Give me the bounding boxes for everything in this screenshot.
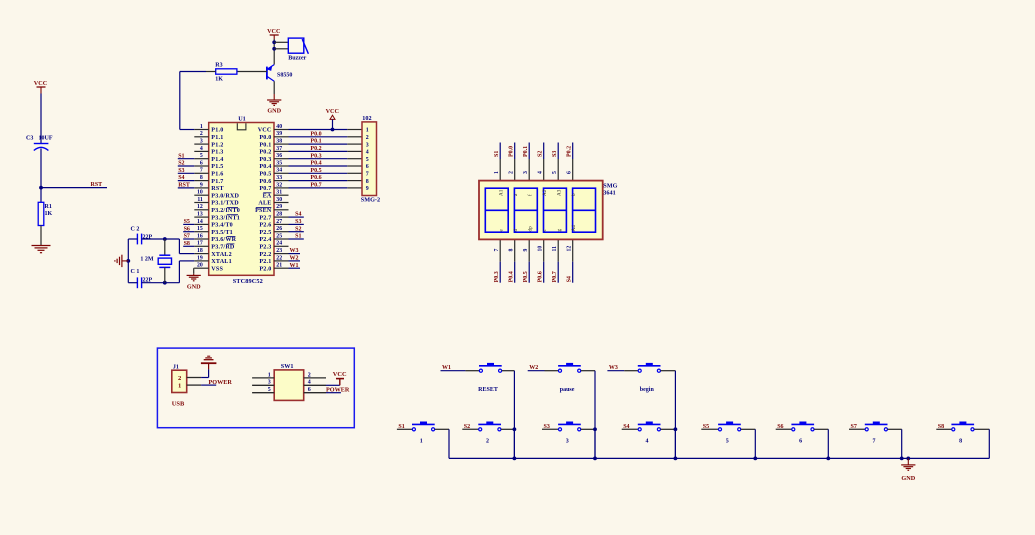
svg-text:2: 2 [200, 131, 203, 137]
pin stub W3 right [661, 370, 676, 372]
svg-text:S4: S4 [295, 212, 301, 218]
svg-text:7: 7 [200, 168, 203, 174]
wire net W1 (right) [289, 267, 301, 269]
wire VCC to buzzer node [273, 39, 275, 65]
pin 27 U1 [259, 219, 288, 229]
svg-text:24: 24 [276, 241, 282, 247]
pin 1 U1 [194, 124, 223, 134]
wire net S1 (left) [178, 158, 195, 160]
svg-text:A1: A1 [498, 189, 504, 196]
wire net P0.1 (display top) [528, 143, 530, 160]
junction W column at key row [674, 427, 678, 431]
svg-text:1: 1 [200, 124, 203, 130]
svg-text:6: 6 [308, 387, 311, 393]
svg-text:1: 1 [268, 372, 271, 378]
svg-text:S2: S2 [295, 226, 301, 232]
wire C2 left [128, 238, 137, 240]
wire net W2 (right) [289, 260, 301, 262]
svg-text:C 1: C 1 [131, 269, 140, 275]
pin stub W1 right [502, 370, 515, 372]
svg-text:P0.0: P0.0 [259, 135, 271, 141]
wire column W1 down [513, 371, 515, 459]
pin 17 U1 [194, 241, 235, 251]
pin 2 display stub [514, 159, 516, 181]
wire S7 to button [849, 428, 865, 430]
ground (key bus) [901, 458, 916, 481]
pin 11 U1 [194, 197, 239, 207]
svg-text:5: 5 [726, 438, 729, 444]
wire net S2 (left) [178, 165, 195, 167]
crystal Y1 12M [140, 239, 171, 283]
switch S1 (key 1) [412, 422, 435, 431]
switch SW1 body [274, 363, 304, 401]
wire C3 to node RST [40, 149, 42, 188]
svg-text:ALE: ALE [258, 201, 271, 207]
svg-text:P0.4: P0.4 [509, 271, 515, 282]
svg-text:22: 22 [276, 255, 282, 261]
svg-text:P0.2: P0.2 [259, 150, 271, 156]
pin stub W1 left [465, 370, 479, 372]
svg-text:U1: U1 [238, 116, 246, 123]
svg-text:18: 18 [197, 248, 203, 254]
svg-text:35: 35 [276, 160, 282, 166]
wire C2 right to crystal node [142, 238, 180, 240]
svg-text:P0.3: P0.3 [310, 153, 321, 159]
junction W column at key row [593, 427, 597, 431]
svg-text:2: 2 [486, 438, 489, 444]
op-amp U1 STC89C52 body [209, 116, 274, 286]
pin 32 U1 [259, 182, 288, 192]
wire VCC to C3 [40, 94, 42, 144]
wire net S7 (left) [183, 238, 194, 240]
svg-text:USB: USB [172, 400, 185, 407]
svg-text:1: 1 [178, 382, 181, 389]
capacitor C3 [26, 136, 53, 151]
svg-text:S1: S1 [295, 234, 301, 240]
svg-text:S2: S2 [178, 161, 184, 167]
box USB power section [157, 348, 354, 428]
pin 19 U1 [194, 255, 232, 265]
pin 11 display stub [557, 239, 559, 261]
pin 35 U1 [259, 160, 288, 170]
svg-text:W2: W2 [290, 256, 299, 262]
svg-text:12: 12 [197, 204, 203, 210]
wire net P0.5 (display bottom) [528, 262, 530, 283]
switch S5 (key 5) [718, 422, 741, 431]
switch W2 (pause) [558, 363, 581, 372]
svg-text:R3: R3 [215, 62, 222, 68]
pin stub S8 right [974, 428, 989, 430]
svg-text:5: 5 [552, 171, 558, 174]
ground (VSS) [187, 274, 202, 291]
svg-text:P2.0: P2.0 [259, 266, 271, 272]
wire S4 to button [622, 428, 638, 430]
svg-text:1K: 1K [45, 211, 53, 217]
svg-text:P2.7: P2.7 [259, 215, 271, 221]
junction W column at key row [513, 427, 517, 431]
wire column W3 down [674, 371, 676, 459]
node RST junction [39, 186, 43, 190]
wire column S2 down [513, 429, 515, 458]
switch S8 (key 8) [951, 422, 974, 431]
wire net S3 (right) [289, 223, 304, 225]
display U2 SMG 3641 body [479, 181, 618, 240]
svg-text:3641: 3641 [603, 190, 615, 197]
svg-text:P3.7/RD: P3.7/RD [211, 245, 235, 251]
svg-text:6: 6 [366, 164, 369, 170]
pin 4 J102 stub [347, 150, 362, 152]
svg-text:39: 39 [276, 131, 282, 137]
svg-text:7: 7 [366, 172, 369, 178]
pin 16 U1 [194, 233, 236, 243]
pin 38 U1 [259, 139, 288, 149]
wire net P0.3 (display bottom) [499, 262, 501, 283]
wire W2 to button [528, 370, 545, 372]
wire junction to R1 [40, 188, 42, 203]
pin 1 display stub [499, 159, 501, 181]
wire R3 to pin stub [206, 71, 216, 73]
svg-text:3: 3 [523, 171, 529, 174]
wire net P0.3 [289, 158, 348, 160]
svg-text:33: 33 [276, 175, 282, 181]
wire net P0.6 (display bottom) [543, 262, 545, 283]
pin stub S7 right [888, 428, 902, 430]
capacitor C2 [131, 227, 153, 245]
svg-text:5: 5 [200, 153, 203, 159]
pin 2 J1 [187, 377, 201, 379]
svg-text:P2.4: P2.4 [259, 237, 271, 243]
pin 8 U1 [194, 175, 223, 185]
svg-text:P0.1: P0.1 [310, 139, 321, 145]
pin 10 display stub [543, 239, 545, 261]
svg-text:VSS: VSS [211, 266, 223, 272]
svg-text:P0.1: P0.1 [523, 146, 529, 157]
wire net P0.4 [289, 165, 348, 167]
pin stub S2 right [501, 428, 514, 430]
svg-text:4: 4 [366, 150, 369, 156]
switch W3 (begin) [638, 363, 661, 372]
overline INT0 [227, 206, 238, 208]
svg-text:P1.1: P1.1 [211, 135, 223, 141]
wire POWER net (J1) [201, 384, 216, 386]
svg-text:4: 4 [200, 146, 203, 152]
svg-text:J1: J1 [173, 364, 179, 370]
display digit 1 [485, 188, 508, 232]
svg-text:1K: 1K [215, 77, 223, 83]
svg-text:S8: S8 [184, 241, 190, 247]
pin stub S6 right [814, 428, 828, 430]
pin 31 U1 [263, 190, 289, 200]
pin 3 display stub [528, 159, 530, 181]
svg-text:27: 27 [276, 219, 282, 225]
pin 5 U1 [194, 153, 223, 163]
wire S3 to button [542, 428, 558, 430]
svg-text:S3: S3 [552, 151, 558, 157]
svg-text:P0.6: P0.6 [310, 175, 321, 181]
svg-text:A4: A4 [571, 225, 577, 232]
switch S6 (key 6) [791, 422, 814, 431]
pin 34 U1 [259, 168, 288, 178]
pin 7 display stub [499, 239, 501, 261]
svg-text:P3.5/T1: P3.5/T1 [211, 230, 233, 236]
svg-text:7: 7 [873, 438, 876, 444]
pin 24 U1 [259, 241, 288, 251]
pin 29 U1 [255, 204, 288, 214]
svg-text:9: 9 [200, 182, 203, 188]
wire net S1 (right) [289, 238, 304, 240]
svg-text:23: 23 [276, 248, 282, 254]
svg-text:11: 11 [552, 246, 558, 252]
pin 10 U1 [194, 190, 239, 200]
svg-text:P0.2: P0.2 [567, 146, 573, 157]
svg-text:P0.7: P0.7 [259, 186, 271, 192]
svg-text:RST: RST [178, 183, 190, 189]
wire XTAL1 link [179, 261, 194, 283]
pin 39 U1 [259, 131, 288, 141]
svg-text:3: 3 [366, 142, 369, 148]
pin 2 SW1 [304, 372, 326, 378]
wire column S8 down [988, 429, 990, 458]
svg-text:P3.2/INT0: P3.2/INT0 [211, 208, 240, 214]
svg-text:pause: pause [560, 387, 575, 393]
pin 28 U1 [259, 212, 288, 222]
wire net S8 (left) [183, 245, 194, 247]
pin 6 J102 stub [347, 165, 362, 167]
overline WR [227, 236, 236, 238]
svg-text:GND: GND [187, 284, 201, 291]
svg-text:S7: S7 [184, 234, 190, 240]
svg-text:A2: A2 [542, 189, 548, 196]
junction S column at bus [753, 457, 757, 461]
svg-text:P0.0: P0.0 [509, 146, 515, 157]
wire VCC pin 40 [289, 129, 348, 131]
wire W1 to button [441, 370, 466, 372]
wire net S6 (left) [183, 231, 194, 233]
svg-text:VCC: VCC [333, 371, 347, 378]
svg-text:2: 2 [308, 372, 311, 378]
pin 5 display stub [557, 159, 559, 181]
wire VSS to ground [193, 268, 196, 274]
connector J102 body [361, 115, 380, 204]
svg-text:EA: EA [263, 193, 272, 199]
svg-text:9: 9 [366, 186, 369, 192]
svg-text:P2.3: P2.3 [259, 245, 271, 251]
ground (crystal, sideways) [115, 255, 128, 267]
wire to buzzer pin 2 [274, 48, 288, 50]
wire net S4 (left) [178, 180, 195, 182]
wire S6 to button [776, 428, 792, 430]
junction W column at bus [593, 457, 597, 461]
pin 4 display stub [543, 159, 545, 181]
svg-text:20: 20 [197, 263, 203, 269]
svg-text:38: 38 [276, 139, 282, 145]
junction ground tap [906, 457, 910, 461]
capacitor C1 [131, 269, 153, 288]
wire SW1 pin4 to VCC [326, 384, 340, 386]
pin stub S4 right [661, 428, 676, 430]
pin 12 display stub [572, 239, 574, 261]
junction W column at bus [674, 457, 678, 461]
svg-text:P1.3: P1.3 [211, 150, 223, 156]
switch S4 (key 4) [638, 422, 661, 431]
wire column S4 down [674, 429, 676, 458]
wire J1 pin2 to ground [201, 369, 209, 377]
pin 20 U1 [194, 263, 223, 273]
svg-text:P0.7: P0.7 [310, 183, 321, 189]
svg-text:P2.1: P2.1 [259, 259, 271, 265]
svg-text:P1.7: P1.7 [211, 179, 223, 185]
svg-text:13: 13 [197, 212, 203, 218]
display digit 3 [544, 188, 567, 232]
svg-text:POWER: POWER [326, 386, 350, 393]
pin 40 U1 [258, 124, 289, 134]
wire net S2 (right) [289, 231, 304, 233]
svg-text:P0.7: P0.7 [552, 271, 558, 282]
svg-text:S3: S3 [178, 168, 184, 174]
pin 13 U1 [194, 212, 240, 222]
svg-text:28: 28 [276, 212, 282, 218]
svg-text:VCC: VCC [34, 80, 47, 87]
pin 25 U1 [259, 233, 288, 243]
wire column S3 down [594, 429, 596, 458]
wire net P0.2 (display top) [572, 143, 574, 160]
svg-text:17: 17 [197, 241, 203, 247]
svg-text:S8550: S8550 [277, 73, 292, 79]
junction S column at bus [900, 457, 904, 461]
svg-text:P2.2: P2.2 [259, 252, 271, 258]
wire net P0.0 (display top) [514, 143, 516, 160]
pin 4 SW1 [304, 380, 326, 386]
svg-text:S2: S2 [538, 151, 544, 157]
junction side ground [126, 259, 130, 263]
svg-text:10: 10 [538, 246, 544, 252]
pin 1 J102 stub [347, 129, 362, 131]
svg-text:SMG-2: SMG-2 [361, 197, 380, 204]
svg-text:7: 7 [494, 249, 500, 252]
svg-text:6: 6 [200, 160, 203, 166]
svg-text:2: 2 [509, 171, 515, 174]
overline PSEN [256, 206, 271, 208]
svg-text:PSEN: PSEN [255, 208, 272, 214]
svg-text:S1: S1 [178, 153, 184, 159]
wire S2 to button [462, 428, 478, 430]
power VCC (buzzer) [267, 28, 280, 39]
pin 9 J102 stub [347, 187, 362, 189]
wire net S5 (left) [183, 223, 194, 225]
svg-text:1 2M: 1 2M [140, 257, 154, 263]
transistor Q1 S8550 [267, 65, 292, 82]
svg-text:10UF: 10UF [39, 136, 53, 142]
wire net S1 (display top) [499, 143, 501, 160]
svg-text:P2.6: P2.6 [259, 223, 271, 229]
svg-text:6: 6 [799, 438, 802, 444]
wire net P0.7 [289, 187, 348, 189]
wire column S6 down [827, 429, 829, 458]
svg-text:P1.4: P1.4 [211, 157, 223, 163]
pin 3 U1 [194, 139, 223, 149]
switch S3 (key 3) [558, 422, 581, 431]
svg-text:102: 102 [362, 115, 371, 122]
pin stub S5 right [741, 428, 756, 430]
wire R1 to ground [40, 226, 42, 246]
buzzer LS1 [288, 38, 308, 61]
svg-text:1: 1 [366, 128, 369, 134]
ground (buzzer) [267, 94, 282, 115]
svg-text:4: 4 [538, 171, 544, 174]
switch S2 (key 2) [478, 422, 501, 431]
svg-text:STC89C52: STC89C52 [233, 278, 263, 285]
svg-text:5: 5 [268, 387, 271, 393]
svg-text:P0.0: P0.0 [310, 131, 321, 137]
wire S8 to button [936, 428, 951, 430]
svg-text:11: 11 [197, 197, 203, 203]
wire R3 left [180, 71, 206, 73]
wire S5 to button [701, 428, 718, 430]
svg-text:S5: S5 [184, 219, 190, 225]
svg-text:1: 1 [494, 171, 500, 174]
wire POWER net (SW1) [326, 392, 341, 394]
ground (USB, antenna style) [201, 356, 217, 369]
wire net P0.4 (display bottom) [514, 262, 516, 283]
svg-text:2: 2 [366, 135, 369, 141]
svg-text:P0.4: P0.4 [259, 164, 271, 170]
svg-text:P1.5: P1.5 [211, 164, 223, 170]
svg-text:P1.2: P1.2 [211, 142, 223, 148]
resistor R3 [215, 62, 237, 82]
overline EA [263, 192, 271, 194]
wire net S4 (right) [289, 216, 304, 218]
pin 18 U1 [194, 248, 232, 258]
power VCC (port 0 pullup) [326, 108, 339, 129]
pin 6 display stub [572, 159, 574, 181]
svg-text:S4: S4 [567, 276, 573, 282]
resistor R1 [38, 202, 52, 225]
pin stub S1 right [435, 428, 449, 430]
wire net W3 (right) [289, 253, 301, 255]
svg-text:8: 8 [200, 175, 203, 181]
svg-text:4: 4 [308, 380, 311, 386]
svg-text:30: 30 [276, 197, 282, 203]
svg-text:P0.5: P0.5 [523, 271, 529, 282]
svg-text:P0.5: P0.5 [259, 172, 271, 178]
svg-text:P0.1: P0.1 [259, 142, 271, 148]
svg-text:10: 10 [197, 190, 203, 196]
svg-text:P3.1/TXD: P3.1/TXD [211, 201, 239, 207]
svg-text:34: 34 [276, 168, 282, 174]
svg-text:W3: W3 [290, 248, 299, 254]
wire ground bus [449, 457, 989, 459]
wire net S3 (left) [178, 172, 195, 174]
pin stub S3 right [581, 428, 595, 430]
svg-text:16: 16 [197, 233, 203, 239]
pin 22 U1 [259, 255, 288, 265]
pin 14 U1 [194, 219, 233, 229]
connector J1 body [172, 364, 187, 407]
pin 5 J102 stub [347, 158, 362, 160]
display digit 4 [573, 188, 596, 232]
svg-text:4: 4 [646, 438, 649, 444]
svg-text:Buzzer: Buzzer [288, 56, 306, 62]
wire net P0.6 [289, 180, 348, 182]
wire transistor emitter to ground [273, 81, 275, 94]
svg-text:21: 21 [276, 263, 282, 269]
svg-text:P0.6: P0.6 [259, 179, 271, 185]
svg-text:31: 31 [276, 190, 282, 196]
svg-text:C3: C3 [26, 136, 33, 142]
svg-text:S4: S4 [178, 175, 184, 181]
junction S column at bus [826, 457, 830, 461]
svg-text:3: 3 [200, 139, 203, 145]
